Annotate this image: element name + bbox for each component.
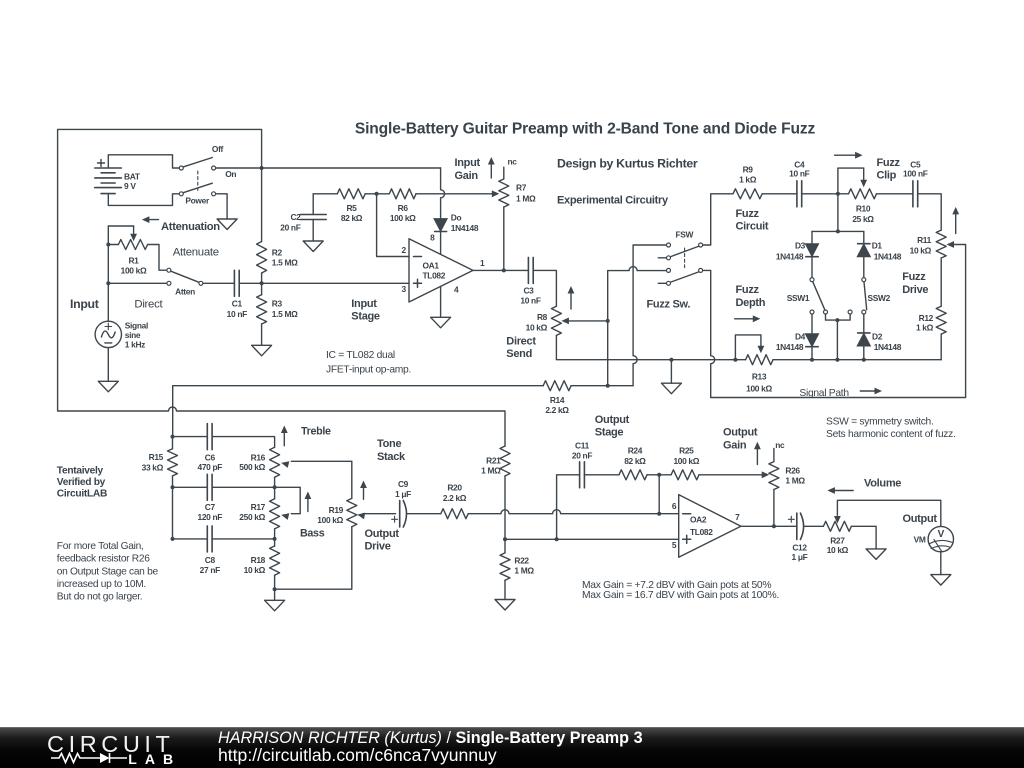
- svg-text:Experimental Circuitry: Experimental Circuitry: [557, 195, 669, 207]
- svg-text:Input: Input: [455, 157, 481, 169]
- svg-text:Output: Output: [723, 426, 758, 438]
- svg-text:1.5 MΩ: 1.5 MΩ: [272, 309, 298, 319]
- label Direct: [134, 299, 163, 311]
- battery BAT 9V: [95, 160, 141, 194]
- potentiometer R26 1M: [769, 449, 805, 527]
- svg-text:D3: D3: [795, 241, 806, 251]
- svg-text:Attenuation: Attenuation: [161, 221, 220, 233]
- pin 4 label: [454, 284, 459, 294]
- svg-text:1 MΩ: 1 MΩ: [785, 476, 805, 486]
- label Signal Path: [799, 388, 849, 399]
- wire FSW upper pole up: [703, 194, 733, 245]
- pin 1 label: [480, 258, 485, 268]
- svg-text:R14: R14: [550, 395, 565, 405]
- op-amp OA1 TL082: [409, 239, 473, 302]
- wire row1 right: [212, 437, 275, 448]
- node feedback tap: [657, 473, 661, 477]
- svg-text:Fuzz: Fuzz: [736, 284, 760, 296]
- annotation fuzz depth arrow: [735, 315, 761, 322]
- svg-text:25 kΩ: 25 kΩ: [852, 214, 874, 224]
- wire direct row: [108, 282, 166, 284]
- annotation SSW note: [826, 417, 956, 441]
- label Output Gain: [723, 426, 758, 451]
- wire C3 to R8: [533, 270, 556, 306]
- wire R18 to R19 bottom: [275, 527, 352, 590]
- wire pin5 row: [505, 538, 679, 540]
- node mid ground: [669, 358, 673, 362]
- potentiometer R19 100k output drive: [317, 461, 395, 526]
- label Output meter: [903, 513, 938, 525]
- label Treble: [301, 426, 331, 438]
- wire D3 to SSW1: [811, 257, 813, 278]
- svg-text:1N4148: 1N4148: [874, 252, 902, 262]
- wire C2 to R5: [313, 193, 337, 195]
- annotation output gain arrow: [754, 442, 761, 465]
- wire rail row2-row3: [172, 487, 174, 539]
- svg-text:R15: R15: [149, 452, 164, 462]
- svg-text:470 pF: 470 pF: [198, 462, 223, 472]
- svg-text:Circuit: Circuit: [736, 221, 769, 233]
- potentiometer R11 10k: [910, 230, 947, 258]
- wire C2 branch: [312, 194, 314, 215]
- svg-text:R7: R7: [516, 183, 527, 193]
- ground C2: [303, 241, 323, 252]
- node 9V rail junction: [260, 166, 264, 170]
- resistor R20 2.2k: [441, 483, 468, 519]
- svg-text:R6: R6: [398, 203, 409, 213]
- switch SSW2: [848, 278, 890, 314]
- svg-text:Sets harmonic content of fuzz.: Sets harmonic content of fuzz.: [826, 429, 956, 440]
- resistor R22 1M: [500, 539, 534, 599]
- potentiometer R17 250k bass: [239, 487, 300, 539]
- label Fuzz Depth: [736, 284, 766, 309]
- wire R8 bottom row: [556, 335, 735, 359]
- svg-text:Do: Do: [451, 212, 462, 222]
- capacitor C2 20nF: [280, 212, 326, 241]
- node SSW bottom: [835, 358, 839, 362]
- svg-text:R9: R9: [743, 164, 754, 174]
- svg-text:R27: R27: [830, 535, 845, 545]
- annotation fuzz arrow right: [835, 152, 863, 159]
- wire R24 to R25: [647, 474, 671, 476]
- wire row2: [173, 486, 208, 488]
- resistor R18 10k: [244, 539, 280, 589]
- svg-text:1.5 MΩ: 1.5 MΩ: [272, 258, 298, 268]
- svg-text:10 nF: 10 nF: [227, 309, 247, 319]
- wire D1 to SSW2: [863, 257, 865, 277]
- svg-text:10 nF: 10 nF: [520, 296, 540, 306]
- svg-text:1 MΩ: 1 MΩ: [514, 565, 534, 575]
- label Direct Send: [506, 336, 536, 361]
- svg-text:C3: C3: [523, 286, 534, 296]
- svg-text:R22: R22: [514, 556, 529, 566]
- pin 3 label: [401, 284, 406, 294]
- svg-text:1 MΩ: 1 MΩ: [481, 465, 501, 475]
- wire C1 to opamp pin3: [239, 282, 409, 284]
- svg-text:100 kΩ: 100 kΩ: [390, 213, 416, 223]
- svg-text:R20: R20: [447, 483, 462, 493]
- svg-text:CircuitLAB: CircuitLAB: [57, 489, 107, 500]
- svg-text:on Output Stage can be: on Output Stage can be: [57, 566, 159, 577]
- wire pin4 ground: [440, 286, 442, 317]
- wire battery negative lead: [108, 194, 179, 206]
- label Attenuate: [173, 246, 219, 258]
- wire rail to Do: [441, 168, 445, 219]
- svg-text:D2: D2: [872, 332, 883, 342]
- svg-text:Design by Kurtus Richter: Design by Kurtus Richter: [557, 157, 698, 171]
- node D4 bottom: [810, 358, 814, 362]
- svg-text:Fuzz Sw.: Fuzz Sw.: [647, 298, 691, 310]
- svg-text:FSW: FSW: [675, 230, 693, 240]
- svg-text:1N4148: 1N4148: [776, 252, 804, 262]
- switch SSW1: [787, 278, 828, 314]
- capacitor C3 10nF: [520, 257, 540, 305]
- ground power switch: [217, 219, 237, 230]
- pin 2 label: [401, 245, 406, 255]
- ground OA1: [431, 317, 451, 328]
- svg-text:100 kΩ: 100 kΩ: [317, 515, 343, 525]
- label Input: [70, 297, 99, 311]
- label Volume: [864, 478, 901, 490]
- svg-text:TL082: TL082: [690, 527, 713, 537]
- annotation R19 arrow up: [360, 481, 367, 500]
- annotation signal path arrow: [860, 388, 882, 395]
- svg-text:4: 4: [454, 284, 459, 294]
- wire Do to pin8: [440, 232, 442, 255]
- capacitor C1 10nF: [227, 270, 247, 319]
- diode D2 1N4148: [857, 314, 902, 359]
- svg-text:100 nF: 100 nF: [903, 169, 928, 179]
- svg-text:1N4148: 1N4148: [874, 342, 902, 352]
- svg-text:33 kΩ: 33 kΩ: [142, 463, 164, 473]
- svg-text:20 nF: 20 nF: [280, 222, 300, 232]
- node R18 bottom: [273, 587, 277, 591]
- svg-text:TL082: TL082: [423, 271, 446, 281]
- node C11 junction: [555, 537, 559, 541]
- svg-text:Fuzz: Fuzz: [902, 271, 926, 283]
- svg-text:Tone: Tone: [377, 438, 401, 450]
- label Output Drive: [365, 528, 400, 553]
- svg-text:1 kΩ: 1 kΩ: [739, 174, 757, 184]
- svg-text:10 kΩ: 10 kΩ: [526, 322, 548, 332]
- annotation gain note: [57, 541, 159, 603]
- wire FSW lower pole to signal path: [703, 241, 966, 397]
- wire row1: [173, 436, 208, 438]
- wire 9V frame rail to R21: [58, 129, 505, 446]
- svg-text:Send: Send: [506, 348, 532, 360]
- wire OA2 output: [741, 525, 796, 527]
- svg-text:1N4148: 1N4148: [776, 342, 804, 352]
- node R8 wiper junction: [606, 319, 610, 323]
- svg-text:feedback resistor R26: feedback resistor R26: [57, 554, 150, 565]
- resistor R9 1k: [733, 164, 762, 198]
- pin 8 label: [430, 233, 435, 243]
- svg-text:82 kΩ: 82 kΩ: [341, 213, 363, 223]
- node D2 bottom: [862, 358, 866, 362]
- svg-text:D4: D4: [795, 332, 806, 342]
- svg-text:Off: Off: [212, 144, 224, 154]
- node row2 left: [171, 485, 175, 489]
- svg-text:Depth: Depth: [736, 297, 766, 309]
- svg-text:100 kΩ: 100 kΩ: [121, 265, 147, 275]
- title text: [355, 121, 816, 138]
- resistor R25 100k: [671, 446, 700, 480]
- switch FSW fuzz: [658, 230, 702, 286]
- resistor R21 1M: [481, 446, 510, 539]
- svg-text:R3: R3: [272, 299, 283, 309]
- potentiometer R1 100k: [108, 226, 166, 275]
- svg-text:R25: R25: [679, 446, 694, 456]
- wire C11 branch: [557, 475, 580, 540]
- svg-text:Direct: Direct: [506, 336, 536, 348]
- node row2 R16: [273, 485, 277, 489]
- wire row3: [173, 538, 208, 540]
- svg-text:Input: Input: [351, 298, 377, 310]
- wire R6 to R7 wiper: [416, 190, 499, 197]
- svg-text:V: V: [938, 529, 945, 540]
- svg-text:C9: C9: [398, 479, 409, 489]
- svg-text:C2: C2: [290, 212, 301, 222]
- svg-text:Signal: Signal: [125, 321, 148, 331]
- svg-text:7: 7: [735, 512, 740, 522]
- node R26 bottom: [772, 524, 776, 528]
- resistor R12 1k: [916, 306, 946, 360]
- wire C11 to R24: [584, 474, 619, 476]
- switch SW Atten/Direct: [167, 268, 203, 296]
- wire C9 to R20: [407, 513, 441, 515]
- resistor R14 2.2k: [543, 381, 571, 415]
- svg-text:Bass: Bass: [300, 528, 325, 540]
- label Fuzz Sw.: [647, 298, 691, 310]
- label Bass: [300, 528, 325, 540]
- wire row A right: [571, 245, 666, 386]
- svg-text:10 kΩ: 10 kΩ: [827, 545, 849, 555]
- ground input source: [98, 381, 118, 392]
- svg-text:1 kHz: 1 kHz: [125, 340, 145, 350]
- potentiometer R13 100k: [735, 335, 773, 394]
- capacitor C7 120nF: [198, 474, 223, 522]
- source V1 signal sine: [95, 321, 148, 350]
- svg-text:20 nF: 20 nF: [572, 450, 592, 460]
- svg-text:Tentaively: Tentaively: [57, 465, 104, 476]
- svg-text:OA1: OA1: [423, 261, 440, 271]
- resistor R24 82k: [619, 446, 647, 480]
- pin 6 label: [672, 501, 677, 511]
- svg-text:1 μF: 1 μF: [395, 489, 411, 499]
- svg-text:Fuzz: Fuzz: [736, 208, 760, 220]
- annotation direct send arrow: [568, 286, 575, 309]
- ground VM: [931, 575, 951, 586]
- label Fuzz Drive: [902, 271, 928, 296]
- label Fuzz Clip: [877, 157, 901, 182]
- ground mid row: [661, 360, 681, 394]
- svg-text:Stage: Stage: [351, 311, 380, 323]
- svg-text:9 V: 9 V: [124, 181, 136, 191]
- node feedback junction: [375, 192, 379, 196]
- svg-text:R19: R19: [329, 505, 344, 515]
- svg-text:82 kΩ: 82 kΩ: [624, 456, 646, 466]
- annotation IC note: [326, 350, 411, 375]
- annotation bass arrow: [305, 492, 312, 512]
- svg-text:R11: R11: [917, 235, 932, 245]
- wire On contact to 9V rail: [216, 167, 441, 169]
- wire battery positive lead: [108, 155, 179, 168]
- wire input vertical: [107, 245, 109, 322]
- annotation treble arrow: [281, 426, 288, 446]
- svg-text:R18: R18: [251, 555, 266, 565]
- capacitor C11 20nF: [572, 441, 592, 488]
- node R13 left: [733, 358, 737, 362]
- svg-text:R17: R17: [251, 502, 266, 512]
- svg-text:Verified by: Verified by: [57, 477, 106, 488]
- wire SSW connector: [826, 314, 851, 359]
- capacitor C6 470pF: [198, 424, 223, 472]
- ground R3: [252, 345, 272, 356]
- wire source to ground: [107, 348, 109, 382]
- svg-text:C7: C7: [205, 502, 216, 512]
- wire C12 to R27: [804, 525, 823, 527]
- label Output Stage: [595, 414, 630, 438]
- svg-text:C8: C8: [205, 555, 216, 565]
- svg-text:D1: D1: [872, 241, 883, 251]
- svg-text:R1: R1: [128, 255, 139, 265]
- wire C5 to R11: [918, 194, 942, 230]
- svg-text:BAT: BAT: [124, 171, 141, 181]
- svg-text:1N4148: 1N4148: [451, 223, 479, 233]
- svg-text:5: 5: [672, 540, 677, 550]
- wire R11 to R12: [940, 258, 942, 306]
- capacitor C12 1uF polarized: [788, 513, 807, 562]
- svg-text:Stage: Stage: [595, 427, 624, 439]
- diode D3 1N4148: [776, 231, 819, 261]
- diode D1 1N4148: [857, 231, 902, 261]
- resistor R3 1.5M: [257, 283, 298, 345]
- svg-text:nc: nc: [775, 440, 785, 450]
- svg-text:27 nF: 27 nF: [200, 565, 220, 575]
- voltmeter VM: [914, 526, 954, 551]
- svg-text:R12: R12: [919, 313, 934, 323]
- node tonestack top: [171, 435, 175, 439]
- svg-text:On: On: [225, 169, 236, 179]
- annotation R11 arrow up: [952, 207, 959, 234]
- svg-text:SSW1: SSW1: [787, 293, 810, 303]
- svg-text:Single-Battery Guitar Preamp w: Single-Battery Guitar Preamp with 2-Band…: [355, 121, 816, 138]
- pin 5 label: [672, 540, 677, 550]
- wire pin1 row: [473, 269, 528, 271]
- wire R5 to R6: [365, 193, 389, 195]
- svg-text:R21: R21: [486, 456, 501, 466]
- svg-text:R8: R8: [537, 312, 548, 322]
- wire VM to ground: [940, 552, 942, 575]
- svg-text:C1: C1: [232, 299, 243, 309]
- wire pin2 drop: [377, 194, 409, 257]
- svg-text:increased up to 10M.: increased up to 10M.: [57, 579, 146, 590]
- node R21 R22 junction: [503, 537, 507, 541]
- svg-text:Direct: Direct: [134, 299, 163, 311]
- svg-text:nc: nc: [508, 156, 518, 166]
- ground tone stack: [265, 589, 285, 611]
- annotation Design by: [557, 157, 698, 171]
- wire row2 right: [212, 486, 275, 488]
- svg-text:Atten: Atten: [175, 286, 195, 296]
- annotation volume arrow: [827, 487, 853, 494]
- annotation Experimental Circuitry: [557, 195, 669, 207]
- wire row A to tone stack: [173, 386, 544, 437]
- svg-text:Output: Output: [365, 528, 400, 540]
- wire R27 wiper to VM: [834, 500, 941, 526]
- resistor R6 100k: [389, 189, 416, 223]
- svg-text:Signal Path: Signal Path: [799, 388, 849, 399]
- wire R10 to C5: [877, 193, 913, 195]
- svg-text:R5: R5: [346, 203, 357, 213]
- node row3 R17: [273, 537, 277, 541]
- wire diode bracket: [812, 194, 864, 232]
- wire atten pole to C1: [203, 282, 234, 284]
- svg-text:sine: sine: [125, 330, 141, 340]
- svg-text:Max Gain = 16.7 dBV with Gain: Max Gain = 16.7 dBV with Gain pots at 10…: [582, 590, 779, 601]
- svg-text:1 MΩ: 1 MΩ: [516, 194, 536, 204]
- svg-text:2.2 kΩ: 2.2 kΩ: [545, 405, 569, 415]
- svg-text:250 kΩ: 250 kΩ: [239, 512, 265, 522]
- svg-text:R13: R13: [752, 372, 767, 382]
- node input top: [106, 243, 110, 247]
- wire feedback to pin6: [657, 475, 661, 516]
- label Fuzz Circuit: [736, 208, 769, 233]
- svg-text:R2: R2: [272, 247, 283, 257]
- svg-text:Treble: Treble: [301, 426, 331, 438]
- label nc R7: [508, 156, 518, 166]
- potentiometer R10 25k: [838, 168, 877, 224]
- svg-text:OA2: OA2: [690, 515, 707, 525]
- label Input Gain: [455, 157, 481, 182]
- wire R13 to diode row: [773, 359, 941, 361]
- svg-text:Input: Input: [70, 297, 99, 311]
- capacitor C4 10nF: [789, 159, 809, 207]
- annotation max gain note: [582, 580, 779, 601]
- wire C4 to R10: [802, 193, 849, 195]
- svg-text:1 μF: 1 μF: [792, 552, 808, 562]
- svg-text:Gain: Gain: [455, 170, 479, 182]
- svg-text:VM: VM: [914, 535, 926, 545]
- svg-text:Output: Output: [903, 513, 938, 525]
- potentiometer R16 500k treble: [239, 447, 352, 487]
- diode Do 1N4148: [434, 212, 479, 233]
- svg-text:2: 2: [401, 245, 406, 255]
- switch SW Power Off/On: [179, 144, 236, 205]
- op-amp OA2 TL082: [679, 495, 741, 558]
- ground R22: [495, 600, 515, 611]
- resistor R5 82k: [337, 189, 365, 223]
- annotation Attenuation arrow: [142, 216, 220, 233]
- diode D4 1N4148: [776, 314, 819, 359]
- capacitor C5 100nF: [903, 159, 928, 207]
- capacitor C8 27nF: [200, 526, 220, 575]
- svg-text:Drive: Drive: [365, 541, 391, 553]
- label Tentaively: [57, 465, 107, 499]
- svg-text:C11: C11: [575, 441, 590, 451]
- node bracket mid: [836, 229, 840, 233]
- svg-text:Output: Output: [595, 414, 630, 426]
- capacitor C9 1uF polarized: [392, 479, 412, 527]
- svg-text:1: 1: [480, 258, 485, 268]
- wire R25 to R26 wiper: [699, 471, 769, 478]
- node fuzz mid: [836, 192, 840, 196]
- svg-text:100 kΩ: 100 kΩ: [746, 384, 772, 394]
- svg-text:500 kΩ: 500 kΩ: [239, 462, 265, 472]
- svg-text:SSW2: SSW2: [867, 293, 890, 303]
- potentiometer R8 10k: [526, 306, 608, 335]
- svg-text:10 kΩ: 10 kΩ: [244, 565, 266, 575]
